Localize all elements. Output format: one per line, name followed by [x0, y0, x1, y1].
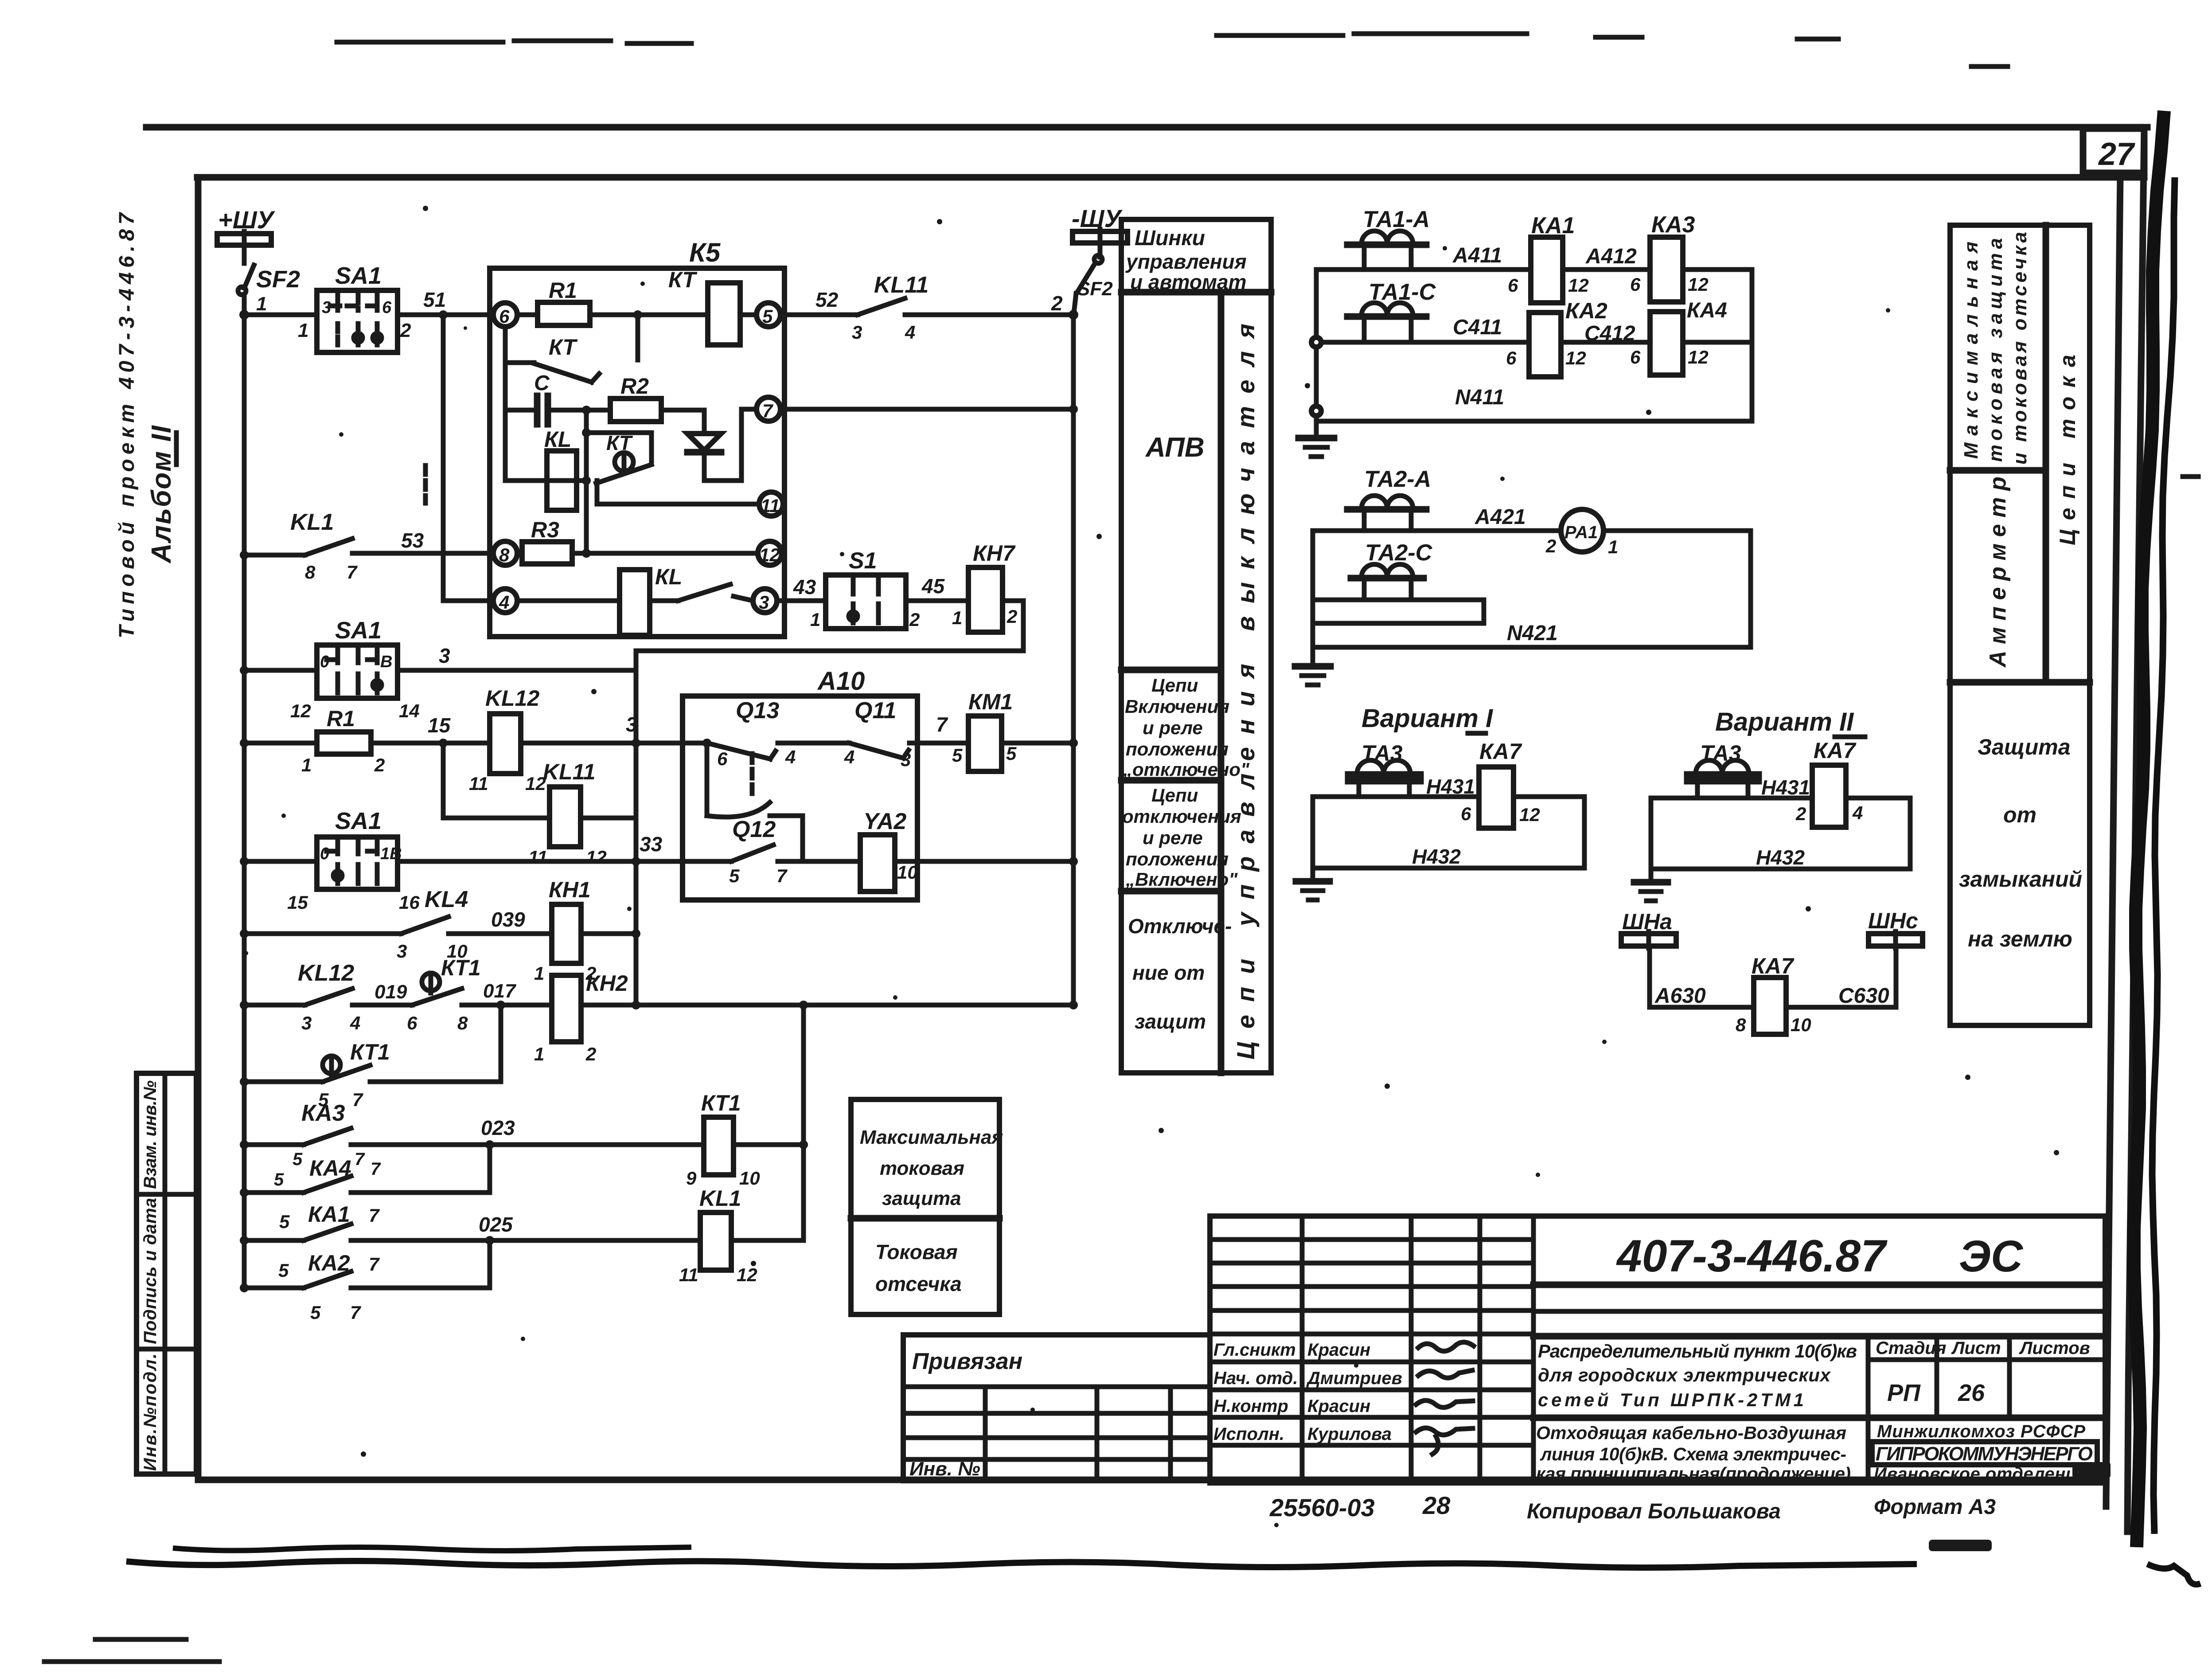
svg-text:+ШУ: +ШУ — [218, 206, 276, 234]
terminal 3 — [753, 589, 777, 613]
wire Q11 out — [909, 741, 917, 746]
node 2 junction — [1069, 310, 1078, 320]
node 3 junction — [632, 739, 640, 747]
svg-text:43: 43 — [793, 575, 816, 598]
relay coil KL2 K5 — [620, 564, 682, 635]
wire row10 bus to KA2 — [244, 1286, 304, 1291]
dashed mech link Q13 — [750, 754, 755, 798]
legend vertical split — [1218, 292, 1225, 1073]
wire KA4 to vertical 023 — [351, 1190, 490, 1195]
ground var2 — [1634, 869, 1668, 901]
CT TA2-C — [1351, 564, 1424, 600]
svg-text:Н431: Н431 — [1426, 775, 1475, 798]
ground TA2 — [1295, 666, 1330, 685]
svg-text:1: 1 — [256, 293, 267, 315]
svg-text:8: 8 — [499, 544, 510, 565]
wire SA1 to node 51 — [398, 313, 493, 317]
left vertical TA2 — [1311, 531, 1315, 665]
S1 pin labels — [810, 609, 920, 630]
drawing frame bottom line — [198, 1477, 2106, 1483]
right scan band — [2134, 111, 2164, 1547]
privyazan grid horizontals — [903, 1413, 1210, 1459]
svg-text:S1: S1 — [849, 548, 877, 574]
svg-text:С411: С411 — [1453, 316, 1502, 339]
terminal 5 — [757, 303, 780, 327]
svg-text:2: 2 — [909, 609, 920, 630]
junction KH1-collector — [632, 929, 640, 938]
wire contact pivot to terminal 11 row — [597, 481, 759, 504]
svg-text:33: 33 — [640, 833, 663, 856]
svg-text:Вариант II: Вариант II — [1715, 708, 1854, 736]
wire KL1 coil to x1813 — [731, 1238, 804, 1243]
svg-text:019: 019 — [375, 981, 407, 1003]
svg-text:12: 12 — [290, 700, 311, 721]
svg-text:Подпись и дата: Подпись и дата — [140, 1198, 160, 1344]
terminal 7 — [757, 397, 780, 421]
CT TA3 var1 — [1348, 741, 1420, 797]
svg-text:0: 0 — [320, 845, 329, 863]
svg-text:от: от — [2003, 802, 2036, 827]
svg-text:Н.контр: Н.контр — [1213, 1396, 1288, 1416]
wire row2 inside A10 — [685, 741, 707, 746]
contact KA1 — [279, 1202, 380, 1240]
inner vertical line below sheet box — [2106, 174, 2120, 1506]
svg-text:КL: КL — [655, 564, 682, 589]
right scan band outer — [2152, 177, 2175, 1534]
svg-text:отключения: отключения — [1122, 806, 1241, 827]
junction row7 — [240, 1140, 249, 1149]
svg-text:РА1: РА1 — [1564, 523, 1598, 542]
wire row5 bus to KL12 contact — [244, 1003, 305, 1008]
switch S1 box — [826, 575, 906, 629]
svg-text:5: 5 — [1006, 743, 1017, 764]
svg-text:Красин: Красин — [1307, 1340, 1370, 1360]
svg-text:10: 10 — [739, 1168, 760, 1189]
svg-text:-ШУ: -ШУ — [1072, 204, 1123, 232]
wire R1 to KL12 — [371, 741, 490, 746]
svg-text:7: 7 — [369, 1205, 380, 1226]
relay coil KA7 var2 — [1795, 738, 1863, 827]
underline of Альбом II — [174, 433, 179, 465]
wire diode loop to terminal7 — [704, 409, 757, 481]
svg-text:Красин: Красин — [1307, 1396, 1370, 1416]
svg-text:2: 2 — [1007, 606, 1017, 627]
svg-text:15: 15 — [428, 714, 451, 737]
junction collector row5 — [632, 1001, 640, 1009]
svg-text:кая принципиальная(продолжение: кая принципиальная(продолжение) — [1536, 1463, 1851, 1484]
svg-text:для городских электрических: для городских электрических — [1538, 1365, 1831, 1385]
staff row 2 — [1213, 1369, 1402, 1388]
vertical V1 C row to R3 row — [584, 410, 589, 553]
relay coil KM1 — [952, 689, 1017, 771]
bottom scan wavy line 1 — [173, 1547, 691, 1551]
svg-text:10: 10 — [1791, 1014, 1811, 1035]
svg-text:А421: А421 — [1475, 505, 1526, 529]
stadia values — [1887, 1380, 1985, 1406]
svg-text:К5: К5 — [689, 238, 721, 267]
svg-text:Минжилкомхоз РСФСР: Минжилкомхоз РСФСР — [1877, 1422, 2085, 1441]
wire KA1 to KL1 coil — [351, 1238, 700, 1243]
junction R1-KT wire — [633, 310, 642, 319]
svg-text:4: 4 — [905, 322, 915, 343]
svg-text:КА4: КА4 — [309, 1156, 351, 1181]
svg-text:и токовая отсечка: и токовая отсечка — [2009, 232, 2031, 465]
wire KT1 coil to x1813 — [733, 1142, 804, 1147]
project name lines — [1538, 1341, 1857, 1410]
svg-text:6: 6 — [407, 1013, 417, 1033]
wire KH7 return loop — [636, 601, 1023, 651]
wire row3 inside A10 — [683, 859, 731, 864]
svg-text:5: 5 — [274, 1170, 284, 1189]
svg-text:6: 6 — [1630, 347, 1641, 368]
junction row9 — [240, 1236, 249, 1245]
wire KL11 to vertical 1435 — [581, 816, 636, 821]
staff sig 4 — [1416, 1428, 1473, 1454]
svg-text:Цепи управления выключателя: Цепи управления выключателя — [1232, 324, 1260, 1060]
svg-text:2: 2 — [1051, 292, 1063, 315]
wire row1 bus to SA1 — [244, 313, 317, 317]
svg-text:токовая защита: токовая защита — [1985, 238, 2006, 462]
privyazan grid verticals — [985, 1387, 1170, 1481]
terminal 6 — [493, 303, 517, 327]
resistor R3 — [522, 517, 572, 564]
wire row4 bus to KL4 — [244, 931, 401, 936]
sheet top border line — [146, 124, 2147, 131]
bottom left dash 1 — [95, 1637, 186, 1642]
junction row3 — [240, 857, 249, 866]
empty strip line — [1533, 1309, 2105, 1314]
svg-text:5: 5 — [293, 1150, 303, 1169]
svg-text:7: 7 — [355, 1150, 365, 1169]
relay coil KH7 — [952, 541, 1017, 632]
svg-text:Защита: Защита — [1978, 735, 2071, 759]
svg-text:ГИПРОКОММУНЭНЕРГО: ГИПРОКОММУНЭНЕРГО — [1876, 1443, 2093, 1465]
coil YA2 — [860, 809, 918, 892]
junction x1813 row7 — [799, 1140, 808, 1149]
staff row 4 — [1213, 1424, 1392, 1444]
svg-text:3: 3 — [301, 1013, 312, 1033]
junction C-R2 — [582, 406, 591, 415]
wire KL4 to KH1 — [449, 931, 552, 936]
svg-text:Лист: Лист — [1951, 1338, 2001, 1358]
svg-text:Цепи: Цепи — [1151, 785, 1198, 806]
wire SA1-3 to A10 — [398, 859, 685, 864]
contact KL K5 output — [650, 584, 753, 601]
svg-text:6: 6 — [1506, 348, 1517, 368]
svg-text:11: 11 — [679, 1264, 698, 1285]
svg-text:039: 039 — [491, 908, 525, 931]
svg-text:B: B — [380, 653, 392, 671]
wire row3 bus to SA1-3 — [244, 859, 317, 864]
svg-text:Q12: Q12 — [732, 817, 776, 842]
svg-text:1: 1 — [534, 963, 544, 984]
svg-text:7: 7 — [350, 1302, 361, 1323]
svg-text:КА3: КА3 — [1651, 212, 1695, 238]
right legend divider h1 — [1950, 467, 2046, 474]
legend cell2 text — [1123, 675, 1250, 780]
revision table rows — [1210, 1240, 1533, 1334]
SA1 row3 pin labels — [287, 845, 420, 913]
svg-text:R2: R2 — [620, 374, 649, 399]
contact Q13 — [702, 698, 796, 769]
bottom left dash 2 — [44, 1659, 219, 1664]
svg-text:Максимальная: Максимальная — [860, 1126, 1003, 1148]
CT TA1-A — [1347, 231, 1426, 270]
junction 023 — [485, 1140, 494, 1149]
time contact KT clock K5 — [586, 431, 652, 483]
svg-text:5: 5 — [279, 1211, 290, 1232]
relay coil KH2 — [534, 971, 628, 1064]
svg-text:ние от: ние от — [1132, 961, 1205, 984]
wire row1 terminal5 to KL11 contact — [780, 313, 858, 317]
svg-text:10: 10 — [897, 862, 918, 883]
svg-text:КА2: КА2 — [308, 1251, 350, 1275]
svg-text:КН2: КН2 — [586, 971, 628, 996]
svg-text:КТ1: КТ1 — [441, 955, 481, 980]
var1 left vertical — [1311, 797, 1315, 868]
svg-text:ЭС: ЭС — [1959, 1232, 2024, 1281]
junction YA2 bus — [1069, 857, 1078, 866]
resistor R1 K5 — [538, 278, 590, 325]
wire Q12 to YA2 — [778, 859, 862, 864]
svg-text:Распределительный пункт 10(б)к: Распределительный пункт 10(б)кв — [1538, 1341, 1857, 1361]
legend cell divider 1 — [1121, 667, 1221, 673]
privyazan table outline — [903, 1335, 1210, 1481]
svg-text:ТА2-С: ТА2-С — [1365, 540, 1433, 566]
wire row SA1-2 from bus — [244, 668, 317, 673]
vertical 017 to row6 — [499, 1005, 503, 1082]
ammeter PA1 — [1545, 509, 1618, 557]
right legend divider h2 — [1950, 679, 2090, 686]
svg-text:12: 12 — [737, 1264, 757, 1285]
terminal 11 — [759, 492, 783, 516]
wire KL12 to node 3 — [521, 741, 685, 746]
wire KL1 row from bus — [244, 553, 305, 558]
stadia block verticals — [1868, 1336, 2009, 1483]
scan noise dots — [244, 206, 2059, 1527]
text Токовая отсечка — [875, 1240, 962, 1295]
svg-text:1: 1 — [301, 755, 312, 775]
blob right frame bottom — [2072, 1462, 2111, 1478]
vertical from node 51 to terminal 4 row — [443, 315, 493, 601]
wire KH1 to collector — [581, 931, 636, 936]
contact KL1 — [290, 509, 368, 583]
svg-text:КН7: КН7 — [973, 541, 1016, 566]
Q13 aux link curl — [707, 802, 770, 817]
svg-text:11: 11 — [469, 773, 488, 794]
junction row8 — [240, 1188, 249, 1197]
junction row5 — [240, 1001, 249, 1009]
left vertical TA1 — [1314, 270, 1319, 437]
svg-text:12: 12 — [586, 847, 607, 868]
wire KAT to ШНс — [1786, 946, 1896, 1007]
svg-text:положения: положения — [1126, 739, 1229, 759]
wire KM1 to right bus — [1002, 741, 1073, 746]
svg-text:5: 5 — [762, 306, 773, 327]
right legend outline — [1950, 225, 2090, 1025]
relay coil KA3 — [1630, 212, 1709, 302]
bottom scan wavy line 2 — [126, 1561, 1917, 1568]
svg-text:КМ1: КМ1 — [968, 689, 1013, 714]
svg-text:РП: РП — [1887, 1380, 1921, 1406]
junction x1813 row5 — [799, 1001, 808, 1009]
svg-text:KL11: KL11 — [543, 759, 596, 784]
wire A10 to KM1 — [917, 741, 968, 746]
svg-text:12: 12 — [1519, 804, 1540, 825]
wire KL12 to KT1 contact — [352, 1003, 412, 1008]
svg-text:защита: защита — [882, 1188, 961, 1209]
svg-text:KL1: KL1 — [699, 1186, 741, 1211]
svg-text:N411: N411 — [1455, 386, 1504, 409]
svg-text:Вариант I: Вариант I — [1362, 704, 1494, 733]
contact KL12 row5 — [298, 960, 360, 1033]
bus bar +ШУ — [217, 231, 271, 263]
var2 right vertical — [1908, 798, 1913, 869]
staff sig 2 — [1418, 1370, 1472, 1378]
time contact KT1 row6 — [318, 1040, 390, 1110]
svg-text:7: 7 — [776, 865, 788, 886]
legend cell divider 2 — [1121, 777, 1221, 784]
relay coil KAT — [1736, 954, 1811, 1035]
revision table verticals — [1302, 1216, 1533, 1483]
svg-text:и реле: и реле — [1143, 827, 1203, 848]
MIDLEGEND — [851, 219, 1271, 1314]
junction row10 — [240, 1283, 249, 1292]
svg-text:11: 11 — [528, 847, 548, 868]
wire row5 KH2 to right bus — [581, 1003, 1073, 1008]
svg-text:А630: А630 — [1654, 984, 1706, 1008]
contact KL4 — [397, 887, 468, 962]
wire var2 top — [1651, 796, 1910, 801]
time contact KT1 row5 — [407, 955, 481, 1033]
junction row2 — [240, 739, 249, 747]
A10 — [683, 667, 948, 900]
svg-text:сетей Тип ШРПК-2ТМ1: сетей Тип ШРПК-2ТМ1 — [1538, 1389, 1804, 1410]
left vertical bus — [242, 294, 247, 1288]
wire terminal8 to R3 — [517, 551, 522, 556]
svg-text:KL11: KL11 — [874, 272, 928, 298]
junction SA1-2 — [240, 666, 249, 675]
node 15 junction — [439, 739, 448, 747]
wire terminal3 to node 43 — [777, 598, 826, 603]
name cell divider — [1533, 1415, 2105, 1421]
label Вариант II — [1715, 708, 1865, 737]
top margin dash marks — [337, 41, 691, 43]
switch SA1 row2 box — [317, 645, 398, 698]
wire var1 top — [1313, 794, 1584, 799]
svg-text:2: 2 — [1545, 536, 1556, 556]
svg-text:Листов: Листов — [2019, 1338, 2090, 1358]
resistor R1 — [301, 706, 385, 775]
terminal 12 — [758, 541, 782, 565]
contact KL11 row1 — [852, 272, 928, 343]
sheet number box — [2083, 129, 2144, 173]
junction V1 at 976 — [582, 428, 591, 437]
svg-text:защит: защит — [1135, 1010, 1206, 1033]
wire phase A row — [1316, 267, 1752, 272]
SA1 row2 pin labels — [290, 653, 420, 721]
junction KL1 row — [240, 551, 249, 559]
svg-text:Стадия: Стадия — [1876, 1338, 1946, 1358]
staff sig 3 — [1416, 1400, 1473, 1408]
svg-text:Исполн.: Исполн. — [1213, 1424, 1284, 1444]
svg-text:1: 1 — [810, 609, 820, 630]
wire terminal6 to R1 — [517, 313, 538, 317]
wire KA3 to KT1 coil — [351, 1142, 704, 1147]
svg-text:Альбом II: Альбом II — [146, 425, 177, 564]
svg-text:Ивановское отделение: Ивановское отделение — [1874, 1464, 2087, 1484]
capacitor C — [505, 372, 586, 424]
vertical 023 to row8 — [488, 1145, 492, 1193]
relay coil KA1 — [1508, 213, 1589, 303]
svg-text:023: 023 — [481, 1116, 515, 1139]
svg-text:Копировал Большакова: Копировал Большакова — [1527, 1500, 1781, 1523]
scan hook bottom right — [2147, 1564, 2200, 1584]
svg-text:„Включено": „Включено" — [1125, 869, 1238, 890]
svg-text:7: 7 — [352, 1089, 363, 1110]
svg-text:6: 6 — [499, 306, 510, 327]
svg-text:SA1: SA1 — [335, 808, 382, 834]
svg-text:4: 4 — [844, 747, 854, 767]
svg-text:26: 26 — [1958, 1380, 1985, 1406]
RIGHTSIDE — [1295, 207, 1923, 1035]
unit A10 box — [683, 696, 917, 900]
legend header divider — [1121, 289, 1271, 296]
svg-text:27: 27 — [2098, 137, 2135, 172]
relay unit K5 box — [490, 268, 784, 637]
svg-text:КА4: КА4 — [1687, 299, 1727, 322]
wire KL11 to node2 — [905, 313, 1073, 317]
CT TA3 var2 — [1687, 741, 1759, 798]
svg-text:025: 025 — [479, 1213, 513, 1236]
svg-text:управления: управления — [1125, 250, 1247, 273]
svg-text:КТ: КТ — [606, 431, 633, 454]
svg-text:2: 2 — [585, 1044, 596, 1064]
svg-text:2: 2 — [1795, 803, 1806, 824]
svg-text:3: 3 — [852, 322, 862, 343]
var1 right vertical — [1582, 797, 1587, 868]
svg-text:KL1: KL1 — [290, 509, 334, 535]
org name lines — [1872, 1422, 2097, 1484]
svg-text:ТА1-А: ТА1-А — [1363, 207, 1430, 232]
svg-text:25560-03: 25560-03 — [1269, 1494, 1375, 1521]
svg-text:KL12: KL12 — [485, 686, 539, 711]
vertical 025 to row10 — [488, 1240, 492, 1288]
junction term7 bus — [1069, 405, 1078, 414]
wire 53 to K5 terminal 8 — [368, 551, 493, 556]
svg-text:КТ1: КТ1 — [350, 1040, 390, 1064]
privyazan header divider — [903, 1385, 1210, 1389]
svg-text:Амперметр: Амперметр — [1985, 477, 2011, 668]
svg-text:15: 15 — [287, 892, 308, 913]
svg-text:6: 6 — [1508, 275, 1518, 296]
relay coil KA4 — [1630, 299, 1727, 375]
contact KA3 — [293, 1100, 365, 1169]
ground TA1 — [1299, 438, 1334, 457]
wire S1 to KH7 — [906, 598, 968, 603]
wire N411 — [1316, 419, 1752, 424]
drawing frame left line — [195, 177, 202, 1480]
fold mark dashed — [423, 465, 428, 503]
relay coil KH1 — [534, 877, 596, 984]
svg-text:8: 8 — [305, 562, 316, 583]
wire terminal7 to right bus — [780, 407, 1073, 412]
staple box divider vertical — [163, 1073, 168, 1474]
svg-text:Включения: Включения — [1125, 696, 1229, 717]
junction KM1 bus — [1069, 739, 1078, 747]
var2 left vertical — [1649, 798, 1654, 869]
svg-text:АПВ: АПВ — [1145, 432, 1205, 463]
